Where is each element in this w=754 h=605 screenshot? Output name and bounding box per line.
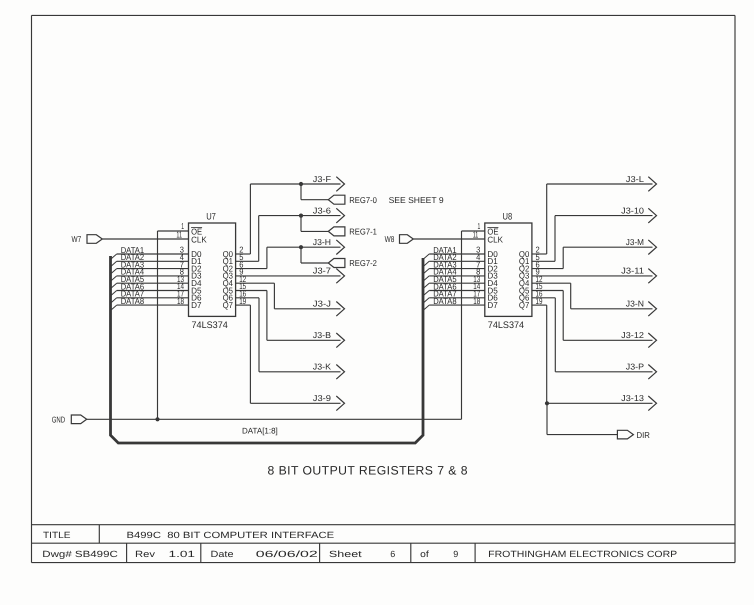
svg-text:DATA8: DATA8 [121, 296, 145, 306]
svg-text:J3-H: J3-H [313, 237, 331, 247]
svg-text:DIR: DIR [637, 430, 650, 440]
svg-text:J3-P: J3-P [626, 362, 645, 372]
svg-text:J3-M: J3-M [626, 237, 644, 247]
svg-text:FROTHINGHAM ELECTRONICS CORP: FROTHINGHAM ELECTRONICS CORP [488, 549, 677, 559]
svg-text:DATA8: DATA8 [433, 296, 457, 306]
svg-text:8 BIT OUTPUT REGISTERS 7 & 8: 8 BIT OUTPUT REGISTERS 7 & 8 [268, 464, 468, 478]
svg-text:TITLE: TITLE [43, 530, 71, 540]
svg-text:J3-K: J3-K [313, 362, 332, 372]
svg-text:J3-9: J3-9 [313, 393, 331, 403]
svg-text:11: 11 [176, 229, 182, 239]
svg-text:J3-13: J3-13 [621, 393, 644, 403]
svg-text:18: 18 [473, 296, 480, 306]
svg-text:Rev: Rev [135, 549, 156, 559]
svg-text:J3-10: J3-10 [621, 205, 644, 215]
svg-text:D7: D7 [487, 300, 498, 310]
svg-text:74LS374: 74LS374 [488, 320, 524, 331]
svg-text:J3-B: J3-B [313, 330, 332, 340]
svg-text:CLK: CLK [191, 234, 207, 244]
svg-text:J3-12: J3-12 [621, 330, 644, 340]
svg-text:U8: U8 [503, 211, 513, 222]
svg-text:U7: U7 [206, 211, 216, 222]
svg-text:1.01: 1.01 [169, 549, 196, 559]
svg-text:Q7: Q7 [223, 300, 234, 310]
svg-text:J3-L: J3-L [626, 174, 644, 184]
svg-text:Sheet: Sheet [329, 549, 362, 559]
svg-text:SEE SHEET 9: SEE SHEET 9 [389, 195, 444, 205]
svg-text:Q7: Q7 [519, 300, 530, 310]
svg-text:18: 18 [177, 296, 184, 306]
svg-text:D7: D7 [191, 300, 202, 310]
svg-text:J3-F: J3-F [313, 174, 331, 184]
svg-text:11: 11 [473, 229, 479, 239]
svg-text:REG7-0: REG7-0 [349, 195, 377, 205]
svg-text:DATA[1:8]: DATA[1:8] [242, 427, 278, 436]
svg-text:GND: GND [52, 414, 65, 424]
svg-text:W7: W7 [72, 234, 82, 244]
svg-text:J3-7: J3-7 [313, 266, 331, 276]
svg-text:J3-11: J3-11 [621, 266, 644, 276]
svg-text:J3-6: J3-6 [313, 205, 331, 215]
svg-text:6: 6 [390, 549, 395, 559]
svg-text:74LS374: 74LS374 [192, 320, 228, 331]
svg-text:B499C 80 BIT COMPUTER INTERFA: B499C 80 BIT COMPUTER INTERFACE [127, 530, 335, 540]
svg-text:9: 9 [453, 549, 458, 559]
svg-text:REG7-2: REG7-2 [349, 258, 377, 268]
svg-text:Date: Date [211, 549, 234, 559]
svg-text:06/06/02: 06/06/02 [256, 549, 318, 559]
svg-text:REG7-1: REG7-1 [349, 227, 377, 237]
svg-text:of: of [420, 549, 429, 559]
svg-text:CLK: CLK [487, 234, 503, 244]
svg-text:Dwg# SB499C: Dwg# SB499C [42, 549, 118, 559]
svg-text:W8: W8 [385, 234, 395, 244]
svg-text:J3-N: J3-N [626, 299, 644, 309]
svg-text:J3-J: J3-J [313, 299, 331, 309]
